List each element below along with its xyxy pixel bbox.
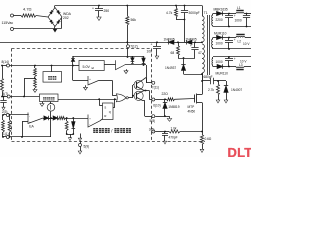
pin 5(8) PGND: [150, 115, 156, 123]
wire driver bases: [132, 85, 136, 97]
svg-text:1.0k: 1.0k: [171, 126, 177, 130]
diode MBR1635: [214, 7, 228, 15]
wire return1: [213, 26, 251, 28]
wire ff q out: [113, 98, 116, 107]
svg-text:2(3): 2(3): [2, 110, 8, 114]
svg-text:1(1): 1(1): [3, 132, 9, 136]
diode 1N4905 a: [164, 37, 175, 44]
secondary winding 3: [212, 57, 213, 67]
label 比较器/存储器: [93, 128, 131, 134]
node vref rail: [34, 65, 74, 67]
svg-text:L2: L2: [238, 39, 242, 43]
wire uvlo out: [125, 64, 147, 83]
wire divider tap: [23, 79, 35, 98]
AC input terminal L: [11, 14, 22, 17]
node: [201, 80, 203, 82]
arrow gnd below: [78, 147, 82, 154]
resistor 56k startup: [126, 6, 137, 42]
svg-text:+: +: [234, 38, 236, 42]
svg-text:-: -: [29, 114, 30, 118]
diode 1N4007: [224, 81, 243, 103]
resistor 22Ω: [162, 92, 175, 101]
pin 1(1) COMP: [3, 132, 52, 138]
AC input terminal N: [11, 28, 62, 31]
node: [126, 5, 128, 7]
wire: [223, 13, 237, 15]
pin 3(5) ISENSE: [149, 127, 155, 133]
svg-text:8(14): 8(14): [2, 60, 9, 64]
diode ea a: [44, 116, 49, 120]
svg-text:5.0V: 5.0V: [83, 65, 91, 69]
wire vcc internal rail: [73, 56, 144, 58]
svg-text:1000: 1000: [216, 60, 223, 64]
svg-text:+: +: [234, 57, 236, 61]
ground arrow bridge minus: [53, 27, 57, 33]
svg-text:DLT: DLT: [228, 145, 252, 157]
svg-text:0.6Ω: 0.6Ω: [205, 137, 212, 141]
secondary winding 1: [212, 14, 213, 27]
gate nor: [116, 94, 128, 102]
inductor L1: [236, 6, 244, 14]
wire: [213, 13, 217, 15]
svg-text:1000: 1000: [216, 41, 223, 45]
ground pgnd: [167, 116, 171, 121]
wire: [54, 6, 56, 8]
wire output node: [143, 90, 152, 100]
diode vcc to ref: [71, 56, 75, 65]
feedback resistor a: [2, 114, 5, 138]
capacitor 470pF: [162, 132, 178, 145]
resistor ea: [49, 117, 88, 120]
wire drain: [202, 74, 204, 95]
comparator PWM: [88, 115, 100, 128]
resistor 4.7k clamp: [166, 6, 178, 20]
pin 7(11) VC: [152, 81, 159, 89]
svg-text:1N5819: 1N5819: [168, 105, 179, 109]
capacitor 3000pF clamp: [181, 6, 200, 20]
pin 2(3) VFB: [2, 110, 29, 117]
wire: [184, 73, 203, 75]
wire VCC rail: [0, 42, 202, 44]
svg-text:4.7Ω: 4.7Ω: [23, 7, 32, 12]
wire return2: [213, 48, 251, 50]
wire source: [201, 103, 203, 135]
pin 8(14) VREF: [1, 60, 73, 67]
svg-text:2200: 2200: [216, 18, 223, 22]
svg-text:6(10): 6(10): [153, 103, 160, 107]
wire: [127, 42, 129, 45]
resistor 4.7Ω: [21, 7, 36, 18]
svg-text:4.7k: 4.7k: [166, 11, 173, 15]
svg-text:5(9): 5(9): [84, 145, 90, 149]
svg-text:+: +: [151, 43, 153, 47]
wire: [245, 37, 251, 39]
wire pin7 drop: [127, 48, 129, 57]
wire: [244, 13, 251, 15]
diode ea b: [53, 116, 58, 120]
svg-text:3(5): 3(5): [149, 127, 155, 131]
svg-text:MUR110: MUR110: [214, 31, 227, 35]
resistor 0.6Ω sense: [200, 135, 212, 153]
block bias 偏置: [43, 66, 62, 83]
node: [184, 5, 186, 7]
wire comparator out: [99, 81, 117, 96]
comparator current limit: [88, 76, 99, 86]
node: [126, 41, 128, 43]
svg-text:22Ω: 22Ω: [162, 92, 169, 96]
wire emitter bottom: [143, 101, 152, 117]
wire isense: [155, 131, 169, 133]
capacitor 47uF: [190, 42, 202, 58]
resistor to gnd: [65, 118, 68, 134]
diode vcc to driver: [142, 56, 146, 65]
svg-text:68: 68: [171, 51, 175, 55]
wire osc out: [58, 98, 116, 105]
IC dashed box: [12, 49, 206, 142]
wire ea out: [43, 118, 53, 120]
wire rail2: [178, 57, 195, 59]
diode 1N5819: [163, 99, 180, 117]
wire comp to r: [100, 119, 103, 121]
current source: [47, 102, 55, 112]
wire: [202, 73, 204, 81]
wire vref drop: [73, 66, 89, 81]
svg-text:56k: 56k: [131, 18, 137, 22]
wire: [36, 16, 48, 18]
svg-text:1N4937: 1N4937: [165, 66, 176, 70]
op-amp EA: [28, 113, 43, 129]
pin 6(10) OUT: [152, 98, 161, 107]
primary winding upper: [202, 16, 204, 42]
capacitor 100uF vcc: [147, 42, 162, 59]
node: [201, 41, 203, 43]
svg-text:-: -: [89, 124, 90, 127]
wire: [213, 37, 217, 39]
wire clamp drop: [184, 20, 186, 43]
op-amp reference: [104, 60, 128, 73]
ground: [84, 85, 88, 90]
svg-text:4N50: 4N50: [188, 110, 196, 114]
primary winding lower: [202, 44, 204, 73]
svg-text:MUR110: MUR110: [216, 72, 229, 76]
svg-text:S: S: [104, 106, 106, 110]
label 115Vac: [2, 21, 14, 25]
divider resistor upper: [34, 66, 37, 80]
svg-text:115Vac: 115Vac: [2, 21, 14, 25]
diode 1N4937 clamp: [165, 58, 186, 74]
wire ea lower in: [21, 122, 28, 138]
label output c: [240, 59, 247, 63]
svg-text:MBR1635: MBR1635: [214, 7, 228, 11]
pin 7(12) VCC: [127, 44, 138, 48]
svg-text:470pF: 470pF: [169, 135, 178, 139]
transformer T1 label: [204, 11, 208, 15]
node: [98, 5, 100, 7]
svg-text:1N4007: 1N4007: [231, 88, 242, 92]
wire pgnd: [155, 116, 169, 118]
wire: [202, 6, 204, 17]
svg-text:+: +: [92, 7, 94, 11]
wire vc to pin: [146, 78, 152, 83]
node: [175, 5, 177, 7]
capacitor 2200uF: [216, 14, 236, 27]
svg-text:ref: ref: [91, 66, 94, 70]
wire: [223, 37, 237, 39]
capacitor 1000uF a: [235, 14, 251, 27]
svg-text:1N4905: 1N4905: [164, 37, 175, 41]
resistor 68: [171, 42, 180, 58]
capacitor 250uF bulk: [92, 6, 109, 21]
pin 5(9) GND: [79, 141, 90, 149]
node: [177, 41, 179, 43]
wire: [61, 17, 63, 29]
diode MUR110 b: [216, 64, 229, 75]
wire gate out: [128, 85, 133, 98]
svg-text:10 V: 10 V: [243, 42, 250, 46]
ground osc: [40, 102, 44, 107]
capacitor 1000uF b: [216, 38, 236, 50]
zener 34V: [131, 56, 135, 63]
transformer core: [208, 15, 210, 75]
transistor MTP4N50: [188, 94, 203, 114]
wire: [223, 66, 236, 68]
diode 1N4905 b: [186, 37, 197, 44]
svg-text:7(11): 7(11): [152, 86, 159, 90]
secondary winding 2: [212, 38, 213, 50]
block oscillator 振荡器: [40, 94, 59, 102]
capacitor 1000uF c: [216, 57, 236, 67]
block 5.0Vref: [73, 61, 104, 71]
svg-text:1000: 1000: [235, 18, 242, 22]
capacitor CT: [0, 96, 6, 110]
wire gate drive: [155, 98, 194, 100]
resistor 2.7k: [208, 81, 220, 103]
watermark logo: [228, 145, 253, 160]
resistor 1.0k: [169, 126, 202, 133]
transistor driver top: [134, 78, 146, 91]
svg-text:L1: L1: [237, 6, 241, 10]
transistor driver bottom: [134, 91, 143, 101]
svg-text:+: +: [234, 14, 236, 18]
resistor RT: [1, 66, 4, 98]
svg-text:2.7k: 2.7k: [208, 88, 214, 92]
divider resistor lower: [33, 79, 37, 93]
svg-text:4(7): 4(7): [3, 92, 9, 96]
svg-text:L3: L3: [239, 63, 243, 67]
pin 4(7) RT/CT: [2, 92, 40, 98]
wire HV rail: [55, 5, 202, 7]
label output b: [243, 42, 250, 46]
svg-text:-: -: [89, 83, 90, 86]
capacitor 680pF: [202, 75, 214, 84]
svg-text:680pF: 680pF: [204, 75, 213, 79]
svg-text:MTP: MTP: [188, 105, 195, 109]
wire: [213, 66, 217, 68]
svg-text:EA: EA: [29, 125, 34, 129]
node: [156, 41, 158, 43]
svg-text:3000pF: 3000pF: [189, 11, 200, 15]
svg-text:5(8): 5(8): [150, 119, 156, 123]
wire comp pin path: [50, 112, 52, 138]
svg-text:250: 250: [104, 9, 110, 13]
svg-text:7(12): 7(12): [130, 44, 137, 48]
wire row C: [213, 56, 251, 58]
wire: [214, 80, 227, 82]
ground internal: [78, 134, 81, 142]
diode MUR110 a: [214, 31, 227, 39]
wire: [244, 66, 251, 68]
diode to gnd: [66, 118, 75, 141]
node: [194, 41, 196, 43]
feedback resistor b: [8, 114, 11, 138]
wire clamp node: [176, 19, 185, 21]
svg-text:+: +: [190, 44, 192, 48]
flip-flop: [103, 103, 114, 120]
svg-text:202: 202: [63, 16, 69, 20]
inductor L3: [236, 63, 244, 70]
inductor L2: [236, 35, 245, 44]
svg-text:T1: T1: [204, 11, 208, 15]
bridge rectifier WDA202: [48, 8, 72, 27]
svg-text:47: 47: [198, 51, 202, 55]
svg-text:1N4905: 1N4905: [186, 37, 197, 41]
